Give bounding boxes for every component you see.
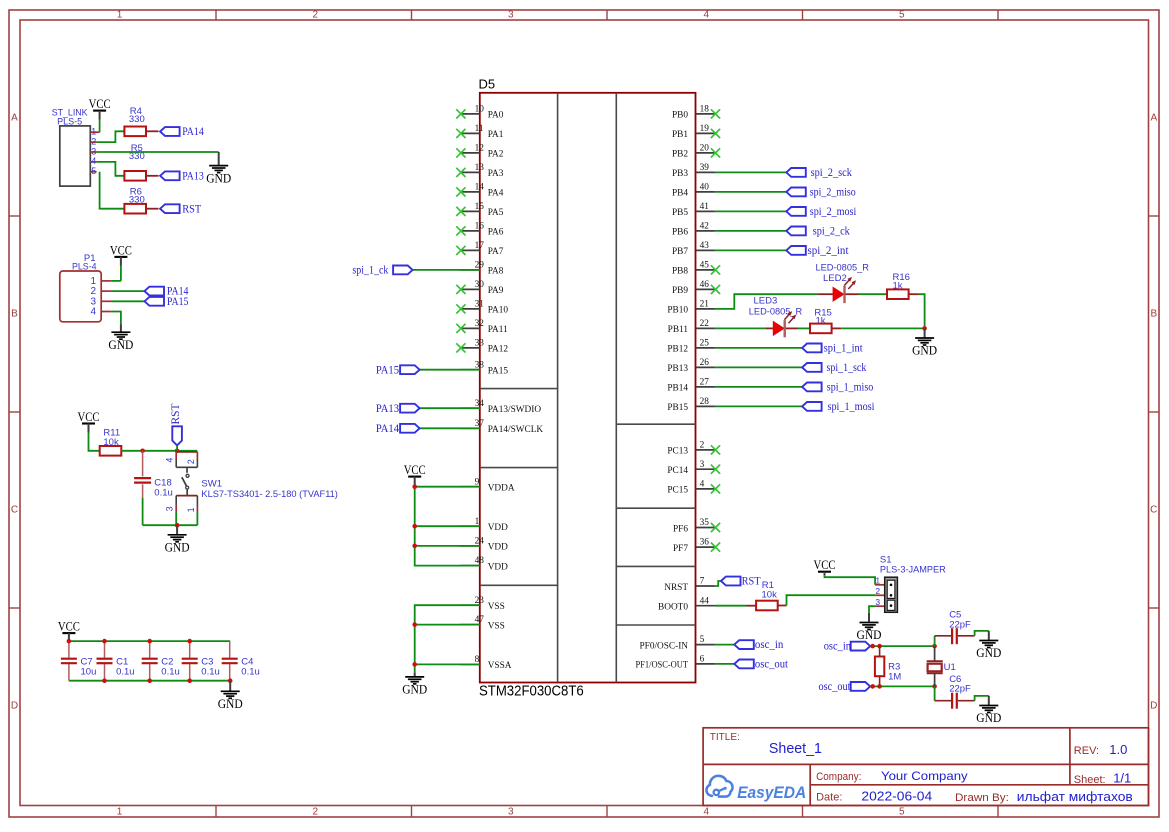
svg-text:osc_in: osc_in — [824, 641, 852, 653]
wire BOOT0 to R1 — [715, 605, 756, 607]
svg-text:spi_2_mosi: spi_2_mosi — [810, 206, 857, 218]
title block dividers — [703, 728, 1148, 806]
junctions osc_in node — [870, 644, 936, 649]
svg-text:19: 19 — [700, 124, 710, 134]
capacitor C4 — [222, 659, 238, 664]
wire NRST to RST flag — [715, 581, 721, 586]
svg-text:PB12: PB12 — [667, 345, 688, 355]
svg-text:Company:: Company: — [816, 771, 861, 783]
svg-text:U1: U1 — [944, 662, 956, 673]
LED D2 (LED2) — [833, 277, 856, 303]
capacitor C18 — [134, 478, 151, 483]
svg-text:osc_out: osc_out — [819, 681, 852, 693]
svg-text:28: 28 — [700, 397, 710, 407]
svg-text:2: 2 — [313, 10, 319, 21]
svg-text:PC14: PC14 — [667, 466, 688, 476]
svg-text:5: 5 — [899, 807, 905, 818]
crystal U1 — [927, 661, 943, 673]
IC D5 right pins with numbers and names — [636, 105, 715, 671]
IC D5 body — [480, 93, 696, 683]
svg-text:2: 2 — [91, 136, 96, 146]
svg-text:PLS-3-JAMPER: PLS-3-JAMPER — [880, 565, 946, 576]
svg-text:PA12: PA12 — [488, 345, 509, 355]
connector P1 pin numbers — [90, 276, 96, 318]
resistor R16 label — [893, 272, 910, 291]
svg-text:PB5: PB5 — [672, 208, 688, 218]
resistor R11 — [100, 446, 122, 456]
svg-text:38: 38 — [475, 360, 485, 370]
svg-text:46: 46 — [700, 280, 710, 290]
svg-text:34: 34 — [475, 399, 485, 409]
svg-text:VCC: VCC — [58, 619, 80, 634]
net flag PA14 (ST_LINK) — [160, 126, 204, 138]
svg-text:VDD: VDD — [488, 562, 508, 572]
wire PA8 to spi_1_ck flag — [413, 269, 480, 271]
net flag PA13 (ST_LINK) — [160, 170, 204, 182]
capacitor C1 — [97, 659, 113, 664]
svg-text:39: 39 — [700, 163, 710, 173]
crystal U1 bottom lead — [934, 673, 936, 686]
net flag spi_1_sck — [802, 362, 866, 374]
IC D5 part number — [479, 684, 584, 700]
wire PF1/OSC-OUT to osc_out flag — [715, 663, 734, 665]
svg-text:13: 13 — [475, 163, 485, 173]
capacitor C5 — [952, 628, 957, 644]
net flag PA15 (IC) — [376, 364, 420, 376]
title block outer box — [703, 728, 1148, 806]
resistor R5 — [124, 171, 146, 181]
svg-text:GND: GND — [976, 645, 1001, 660]
svg-text:A: A — [11, 113, 18, 124]
svg-text:spi_1_int: spi_1_int — [824, 343, 864, 355]
junctions cap bank top rail — [67, 639, 192, 644]
net flag spi_1_ck — [352, 265, 412, 277]
svg-text:spi_2_int: spi_2_int — [808, 245, 850, 257]
svg-text:GND: GND — [402, 682, 427, 697]
net flag spi_2_ck — [786, 226, 850, 238]
net flag PA14 (IC) — [376, 423, 420, 435]
wire VCC to ST_LINK pin 1 — [90, 120, 99, 133]
svg-text:25: 25 — [700, 339, 710, 349]
wire PB to spi_2_miso flag — [715, 191, 786, 193]
IC D5 left pins with numbers and names — [460, 105, 543, 672]
svg-text:spi_2_miso: spi_2_miso — [810, 187, 856, 199]
ground GND (cap bank) — [218, 681, 243, 711]
svg-text:PB6: PB6 — [672, 228, 688, 238]
svg-text:20: 20 — [700, 144, 710, 154]
net flag spi_2_sck — [786, 167, 852, 179]
svg-text:Sheet:: Sheet: — [1074, 774, 1106, 786]
IC D5 designator — [479, 76, 496, 91]
svg-text:32: 32 — [475, 319, 485, 329]
power flag VCC (VDD rail) — [404, 462, 426, 486]
svg-text:PA13: PA13 — [182, 170, 204, 182]
svg-text:TITLE:: TITLE: — [710, 732, 740, 743]
LED2 labels — [816, 263, 870, 285]
LED3 labels — [749, 296, 803, 318]
svg-text:PB8: PB8 — [672, 267, 688, 277]
svg-text:VCC: VCC — [110, 242, 132, 257]
svg-text:PF0/OSC-IN: PF0/OSC-IN — [640, 641, 689, 651]
capacitor C1 leads — [104, 641, 106, 681]
svg-text:30: 30 — [475, 280, 485, 290]
switch SW1 pin 2 number — [186, 459, 196, 464]
svg-text:4: 4 — [700, 480, 705, 490]
svg-text:spi_2_sck: spi_2_sck — [811, 167, 853, 179]
capacitor C2 label — [161, 657, 180, 678]
no-connect marks right pins — [711, 109, 720, 551]
svg-text:3: 3 — [508, 10, 514, 21]
switch SW1 label — [201, 478, 338, 500]
wire PB to spi_1_mosi flag — [715, 405, 802, 407]
net flag RST (ST_LINK) — [160, 203, 201, 215]
svg-text:PA11: PA11 — [488, 325, 508, 335]
wire PB to spi_2_int flag — [715, 249, 786, 251]
title block Sheet label — [1074, 774, 1106, 786]
svg-text:PB0: PB0 — [672, 111, 688, 121]
capacitor C7 leads — [68, 641, 70, 681]
svg-text:PA5: PA5 — [488, 208, 504, 218]
capacitor C7 — [61, 659, 77, 664]
resistor R11 label — [103, 428, 120, 449]
svg-text:0.1u: 0.1u — [154, 488, 173, 499]
wire ST_LINK pin 3 to GND — [97, 151, 219, 153]
resistor R15 — [810, 324, 832, 334]
svg-text:ильфат мифтахов: ильфат мифтахов — [1017, 790, 1133, 804]
junctions VSS rail — [412, 622, 417, 666]
svg-text:PA15: PA15 — [376, 364, 399, 376]
svg-text:10k: 10k — [762, 589, 778, 600]
svg-text:42: 42 — [700, 222, 710, 232]
resistor R3 label — [888, 662, 901, 683]
svg-text:GND: GND — [108, 337, 133, 352]
svg-text:5: 5 — [700, 635, 705, 645]
title block REV label — [1074, 745, 1099, 757]
svg-text:PB7: PB7 — [672, 247, 688, 257]
svg-text:27: 27 — [700, 378, 710, 388]
svg-text:PA2: PA2 — [488, 150, 504, 160]
title block sheet number — [1113, 771, 1131, 786]
svg-text:PB11: PB11 — [668, 325, 689, 335]
svg-text:0.1u: 0.1u — [201, 667, 220, 678]
net flag spi_1_miso — [802, 382, 873, 394]
connector ST_LINK pins — [90, 132, 96, 172]
svg-text:4: 4 — [164, 458, 174, 463]
net flag osc_in (IC) — [734, 639, 783, 651]
junction SW1 ground node — [175, 523, 180, 528]
svg-text:0.1u: 0.1u — [116, 667, 135, 678]
ground GND (C6) — [976, 696, 1001, 725]
title block Drawn By label — [955, 792, 1009, 804]
svg-text:3: 3 — [508, 807, 514, 818]
svg-text:VDDA: VDDA — [488, 484, 515, 494]
svg-text:40: 40 — [700, 183, 710, 193]
title block TITLE label — [710, 732, 740, 743]
switch SW1 top section — [176, 452, 197, 467]
wire LED2 to R16 — [846, 293, 888, 295]
svg-text:PB15: PB15 — [667, 403, 688, 413]
no-connect marks left pins — [456, 109, 465, 352]
svg-text:D: D — [11, 701, 18, 712]
wire PB11 to LED3 — [715, 327, 773, 329]
svg-text:2022-06-04: 2022-06-04 — [861, 790, 932, 804]
net flag RST (SW1, vertical) — [170, 404, 182, 451]
svg-text:3: 3 — [164, 506, 174, 511]
svg-text:14: 14 — [475, 183, 485, 193]
resistor R15 label — [814, 307, 831, 326]
junctions cap bank bottom rail — [102, 678, 232, 683]
title block sheet name — [769, 740, 822, 757]
net flag spi_1_mosi — [802, 401, 874, 413]
wire R6 to RST flag — [146, 208, 159, 210]
capacitor C6 label — [949, 674, 971, 695]
svg-text:REV:: REV: — [1074, 745, 1099, 757]
svg-text:VSS: VSS — [488, 602, 505, 612]
wire VSS pins to GND rail — [415, 605, 480, 672]
wire cap bank top rail — [69, 640, 230, 642]
wire P1 pin 3 to PA15 flag — [112, 300, 145, 302]
svg-text:PF7: PF7 — [673, 544, 688, 554]
wire PB to spi_2_ck flag — [715, 230, 786, 232]
ground GND (S1) — [857, 613, 882, 642]
svg-text:PF6: PF6 — [673, 524, 688, 534]
connector ST_LINK PLS-5 label — [52, 107, 89, 127]
wire LED3 to R15 — [786, 327, 810, 329]
svg-text:B: B — [11, 309, 18, 320]
svg-text:2: 2 — [186, 459, 196, 464]
svg-text:VCC: VCC — [89, 96, 111, 111]
resistor R1 label — [762, 580, 778, 600]
capacitor C1 label — [116, 657, 135, 678]
svg-text:KLS7-TS3401- 2.5-180 (TVAF11): KLS7-TS3401- 2.5-180 (TVAF11) — [201, 489, 338, 500]
svg-text:44: 44 — [700, 596, 710, 606]
resistor R6 — [124, 204, 146, 214]
svg-text:EasyEDA: EasyEDA — [737, 784, 806, 802]
svg-text:4: 4 — [90, 307, 96, 318]
wire VCC to S1 pin 1 — [825, 576, 885, 585]
wire C6 to GND — [958, 696, 989, 701]
net flag osc_out (crystal) — [819, 681, 871, 693]
svg-text:PA15: PA15 — [167, 296, 189, 308]
svg-text:spi_1_miso: spi_1_miso — [827, 382, 874, 394]
svg-text:10u: 10u — [81, 667, 97, 678]
svg-text:C: C — [1150, 505, 1157, 516]
svg-text:330: 330 — [129, 151, 145, 162]
net flag osc_out (IC) — [734, 659, 788, 671]
EasyEDA logo text — [737, 784, 806, 802]
junction LED ground node — [922, 326, 927, 331]
svg-text:Your Company: Your Company — [881, 769, 968, 783]
crystal U1 top lead — [934, 646, 936, 661]
svg-text:PA13/SWDIO: PA13/SWDIO — [488, 405, 542, 415]
svg-text:PA15: PA15 — [488, 367, 509, 377]
power flag VCC (P1) — [110, 242, 132, 266]
wire PB10 to LED2 — [715, 294, 833, 309]
wire PA14/SWCLK to flag — [420, 427, 480, 429]
wire osc_out to C6 — [935, 686, 951, 700]
svg-text:BOOT0: BOOT0 — [658, 603, 688, 613]
wire PF0/OSC-IN to osc_in flag — [715, 644, 734, 646]
resistor R5 label — [129, 143, 145, 162]
svg-text:osc_in: osc_in — [755, 639, 784, 651]
svg-text:PC13: PC13 — [667, 447, 688, 457]
title block Date label — [816, 792, 842, 804]
resistor R4 label — [129, 106, 145, 125]
capacitor C4 label — [241, 657, 259, 678]
wire osc_in node — [870, 645, 934, 647]
svg-text:LED3: LED3 — [754, 296, 778, 307]
svg-text:0.1u: 0.1u — [161, 667, 180, 678]
svg-text:45: 45 — [700, 261, 710, 271]
svg-text:STM32F030C8T6: STM32F030C8T6 — [479, 684, 584, 700]
resistor R4 — [124, 127, 146, 137]
svg-text:5: 5 — [91, 166, 96, 176]
power flag VCC (cap bank) — [58, 619, 80, 642]
wire PA13/SWDIO to flag — [420, 407, 480, 409]
svg-text:VCC: VCC — [404, 462, 426, 477]
junctions VDD rail — [412, 484, 417, 548]
ground GND (SW1) — [165, 525, 190, 554]
svg-text:PA14: PA14 — [376, 423, 399, 435]
title block revision — [1109, 742, 1127, 757]
ground GND (C5) — [976, 631, 1001, 660]
svg-text:PC15: PC15 — [667, 486, 688, 496]
resistor R1 — [756, 601, 778, 611]
svg-text:4: 4 — [91, 156, 96, 166]
net flag spi_1_int — [802, 343, 863, 355]
border row ticks — [9, 216, 1159, 608]
IC D5 internal dividers — [480, 93, 696, 683]
switch SW1 pin 3 number — [164, 506, 174, 511]
svg-text:PA10: PA10 — [488, 306, 509, 316]
svg-text:VDD: VDD — [488, 543, 508, 553]
svg-text:330: 330 — [129, 114, 145, 125]
net flag spi_2_mosi — [786, 206, 856, 218]
power flag VCC (ST_LINK) — [89, 96, 111, 120]
svg-text:0.1u: 0.1u — [241, 667, 259, 678]
svg-text:GND: GND — [976, 710, 1001, 725]
wire S1 pin 3 to GND — [869, 606, 885, 613]
switch SW1 lever — [182, 467, 189, 495]
svg-text:36: 36 — [700, 538, 710, 548]
capacitor C3 — [182, 659, 198, 664]
svg-text:21: 21 — [700, 300, 710, 310]
switch SW1 pin 4 number — [164, 458, 174, 463]
svg-text:C: C — [11, 505, 18, 516]
svg-text:PB1: PB1 — [672, 130, 688, 140]
svg-text:16: 16 — [475, 222, 485, 232]
wire SW1 bottom to GND — [143, 524, 198, 526]
svg-text:33: 33 — [475, 339, 485, 349]
svg-text:PA6: PA6 — [488, 228, 504, 238]
svg-text:PA14/SWCLK: PA14/SWCLK — [488, 425, 544, 435]
svg-text:VSSA: VSSA — [488, 661, 512, 671]
svg-text:10: 10 — [475, 105, 485, 115]
wire PB to spi_1_int flag — [715, 347, 802, 349]
net flag PA13 (IC) — [376, 403, 420, 415]
connector P1 PLS-4 label — [72, 253, 97, 272]
border row letters — [11, 113, 1158, 712]
svg-text:D5: D5 — [479, 76, 496, 91]
svg-text:PA13: PA13 — [376, 403, 399, 415]
svg-text:PA14: PA14 — [182, 126, 204, 138]
wire ST_LINK pin 5 to R6 — [100, 172, 125, 209]
svg-text:15: 15 — [475, 202, 485, 212]
ground GND (LED chain) — [912, 328, 937, 357]
svg-text:18: 18 — [700, 105, 710, 115]
switch SW1 bottom section — [176, 496, 197, 526]
border column numbers — [117, 10, 905, 818]
jumper S1 pin numbers — [875, 576, 880, 608]
wire ST_LINK pin 4 to R5 — [97, 162, 125, 176]
title block date — [861, 790, 932, 804]
svg-text:4: 4 — [704, 10, 710, 21]
svg-text:PB14: PB14 — [667, 384, 688, 394]
wire VCC to P1 pin 1 — [112, 266, 121, 281]
power flag VCC (S1) — [814, 557, 836, 576]
svg-text:PA9: PA9 — [488, 286, 504, 296]
svg-text:VCC: VCC — [78, 409, 100, 424]
svg-text:SW1: SW1 — [201, 478, 222, 489]
jumper S1 body — [885, 577, 898, 612]
svg-text:1: 1 — [117, 807, 123, 818]
svg-text:GND: GND — [165, 540, 190, 555]
wire R15 to ground node — [832, 327, 925, 329]
svg-text:GND: GND — [206, 170, 231, 185]
svg-text:PB13: PB13 — [667, 364, 688, 374]
border column ticks — [216, 10, 998, 817]
resistor R3 leads — [879, 646, 881, 686]
wire R11 to SW1 node — [121, 450, 197, 452]
svg-text:RST: RST — [182, 203, 201, 215]
svg-text:1: 1 — [117, 10, 123, 21]
svg-text:1M: 1M — [888, 672, 901, 683]
svg-text:NRST: NRST — [664, 583, 688, 593]
svg-text:PB10: PB10 — [667, 306, 688, 316]
capacitor C6 — [952, 693, 957, 709]
svg-text:7: 7 — [700, 577, 705, 587]
resistor R3 — [875, 657, 884, 677]
wire R5 to PA13 flag — [146, 175, 159, 177]
capacitor C2 — [142, 659, 158, 664]
net flag osc_in (crystal) — [824, 641, 871, 653]
svg-text:B: B — [1150, 309, 1157, 320]
capacitor C2 leads — [149, 641, 151, 681]
connector P1 pins — [101, 281, 111, 312]
crystal U1 label — [944, 662, 956, 673]
svg-text:2: 2 — [313, 807, 319, 818]
net flag PA15 (P1) — [145, 296, 189, 308]
svg-text:3: 3 — [91, 146, 96, 156]
svg-text:GND: GND — [912, 343, 937, 358]
svg-text:PA3: PA3 — [488, 169, 504, 179]
svg-text:35: 35 — [700, 518, 710, 528]
svg-text:1: 1 — [186, 507, 196, 512]
wire C5 to GND — [958, 631, 989, 636]
title block Company label — [816, 771, 861, 783]
ground GND (VSS rail) — [402, 672, 427, 696]
junction RST node — [175, 449, 180, 454]
capacitor C5 label — [949, 610, 971, 631]
jumper S1 label — [880, 555, 946, 576]
net flag PA14 (P1) — [145, 286, 189, 298]
capacitor C18 top lead — [142, 451, 144, 477]
switch SW1 pin 1 number — [186, 507, 196, 512]
junctions osc_out node — [870, 684, 936, 689]
wire R16 to ground node — [909, 294, 925, 328]
svg-text:Date:: Date: — [816, 792, 842, 804]
wire PB to spi_1_sck flag — [715, 366, 802, 368]
